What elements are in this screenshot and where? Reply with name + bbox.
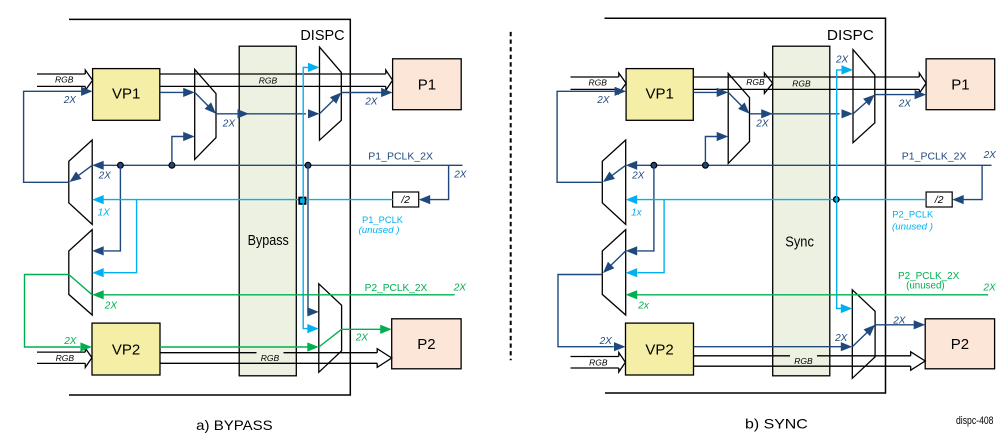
wire VP2 2X output to mux M3 (blue)	[694, 346, 844, 348]
block P2	[925, 319, 994, 369]
wire P_PCLK branch to mux MB (1X)	[104, 200, 137, 273]
svg-text:b) SYNC: b) SYNC	[745, 416, 808, 432]
junction on P1_PCLK_2X at MB branch	[118, 162, 124, 168]
svg-text:RGB: RGB	[55, 75, 74, 85]
block VP1	[93, 69, 160, 121]
wire branch to mux MB 2X input	[104, 165, 120, 251]
wire MA output to VP1 2X clock input	[24, 91, 81, 182]
svg-text:2X: 2X	[599, 336, 613, 347]
svg-text:VP2: VP2	[112, 342, 140, 359]
svg-text:2x: 2x	[637, 300, 650, 311]
svg-text:2X: 2X	[834, 333, 848, 344]
wire branch to mux M1 lower input	[172, 137, 185, 166]
svg-text:P1: P1	[951, 77, 969, 94]
mux M2 (P1 clock)	[320, 47, 342, 140]
mux M1 (VP1 output)	[195, 69, 216, 159]
svg-text:2X: 2X	[835, 55, 849, 66]
svg-text:VP1: VP1	[646, 86, 674, 103]
wire M2 output to P1 pixel clock	[341, 92, 383, 94]
wire M1 output 2X through box to mux M2	[216, 113, 306, 115]
wire VP1 2X output to mux M1	[160, 91, 185, 93]
svg-text:RGB: RGB	[746, 77, 765, 87]
DISPC boundary box (a)	[69, 19, 350, 395]
DISPC boundary box (b)	[605, 18, 886, 393]
mux MB selected path (green)	[69, 275, 92, 295]
wire M1 output 2X through box to mux M2	[750, 113, 840, 115]
svg-text:2X: 2X	[222, 118, 236, 129]
svg-text:RGB: RGB	[588, 78, 607, 88]
block P1	[926, 59, 995, 110]
junction dot on P2_PCLK	[834, 197, 839, 202]
Sync block	[773, 46, 830, 376]
divider /2	[926, 192, 952, 207]
label RGB (inside Bypass box, bottom)	[257, 351, 284, 361]
svg-text:(unused ): (unused )	[892, 221, 933, 232]
svg-text:(unused): (unused)	[906, 281, 945, 292]
mux M2 selected-path arrow	[320, 99, 335, 114]
svg-text:dispc-408: dispc-408	[956, 415, 994, 427]
svg-text:/2: /2	[934, 194, 944, 206]
block VP2	[92, 323, 160, 375]
svg-text:2X: 2X	[596, 95, 610, 106]
wire VP1 2X output to mux M1	[693, 91, 718, 93]
wire RGB bus into VP2	[571, 356, 619, 358]
svg-text:P2: P2	[417, 336, 435, 353]
wire MB output to VP2 2X clock input (green)	[25, 275, 81, 348]
dashed separator line	[510, 32, 512, 360]
svg-text:2X: 2X	[98, 170, 112, 181]
svg-text:P2: P2	[951, 336, 969, 353]
svg-text:RGB: RGB	[259, 76, 278, 86]
svg-text:P1_PCLK_2X: P1_PCLK_2X	[902, 152, 967, 163]
mux M1 selected-path arrow	[195, 92, 210, 107]
Bypass block	[239, 46, 296, 376]
wire RGB bus VP2 to P2	[160, 352, 377, 354]
svg-text:(unused ): (unused )	[359, 225, 400, 236]
mux M2 (P1 clock)	[853, 50, 875, 143]
block P2	[392, 319, 461, 369]
svg-text:VP2: VP2	[645, 342, 673, 359]
wire branch to mux MB 2X input	[638, 165, 654, 251]
wire VP2 2X output to mux M3 (green)	[160, 346, 310, 348]
svg-text:RGB: RGB	[261, 353, 280, 363]
wire P2_PCLK_2X main line	[102, 294, 455, 296]
mux MB (VP2 clock select)	[602, 230, 625, 315]
wire RGB bus VP2 to P2	[694, 355, 911, 357]
mux MA (VP1 clock select)	[602, 140, 625, 224]
block VP2	[626, 323, 694, 375]
svg-text:2X: 2X	[892, 316, 906, 327]
svg-text:2X: 2X	[104, 300, 118, 311]
wire branch down to mux M3 2X input	[308, 165, 309, 312]
wire P1_PCLK_2X main line	[635, 164, 991, 166]
junction square on P1_PCLK	[299, 198, 305, 204]
wire RGB bus VP1 to P1	[693, 76, 919, 78]
wire M2 output to P1 pixel clock	[875, 94, 917, 96]
wire P_PCLK branch to mux MB (1X)	[638, 200, 665, 273]
svg-text:1X: 1X	[98, 208, 111, 219]
wire P_PCLK up to mux M2 top input	[837, 70, 842, 200]
svg-text:2X: 2X	[364, 97, 378, 108]
mux MA selected-path arrow	[77, 165, 92, 176]
svg-text:P2_PCLK: P2_PCLK	[892, 209, 934, 220]
wire RGB bus into VP1	[37, 73, 85, 75]
svg-text:RGB: RGB	[792, 79, 811, 89]
mux MB (VP2 clock select)	[69, 230, 92, 315]
block P1	[393, 59, 462, 110]
mux M1 (VP1 output)	[728, 73, 749, 163]
bus arrow into Sync box with label RGB	[764, 73, 772, 93]
svg-text:2X: 2X	[63, 95, 77, 106]
wire M3 output to P2 pixel clock (blue)	[875, 324, 916, 326]
svg-text:/2: /2	[400, 194, 410, 206]
junction on P1_PCLK_2X at MB branch	[651, 162, 657, 168]
divider /2	[393, 192, 419, 207]
svg-text:RGB: RGB	[794, 356, 813, 366]
svg-text:2X: 2X	[982, 282, 996, 293]
mux MA (VP1 clock select)	[69, 140, 92, 224]
svg-text:DISPC: DISPC	[827, 27, 874, 44]
junction on P1_PCLK_2X at M1 branch	[169, 162, 175, 168]
wire branch to /2 divider	[964, 165, 983, 199]
svg-text:DISPC: DISPC	[300, 27, 344, 44]
svg-text:RGB: RGB	[589, 357, 608, 367]
wire branch to /2 divider	[430, 165, 449, 199]
svg-text:2X: 2X	[453, 170, 467, 181]
mux M3 (P2 clock)	[852, 290, 875, 379]
svg-text:2X: 2X	[898, 99, 912, 110]
svg-text:P1: P1	[418, 77, 436, 94]
svg-text:2X: 2X	[755, 118, 769, 129]
svg-text:Bypass: Bypass	[248, 232, 289, 249]
wire P2_PCLK_2X main line	[635, 294, 988, 296]
mux M3 selected path (blue)	[852, 331, 868, 346]
wire branch to mux M1 lower input	[705, 137, 718, 166]
svg-text:P2_PCLK_2X: P2_PCLK_2X	[365, 283, 428, 294]
mux M1 selected-path arrow	[728, 92, 743, 107]
wire RGB bus into VP1	[571, 76, 619, 78]
svg-text:a) BYPASS: a) BYPASS	[196, 417, 273, 433]
label RGB (inside Sync box, bottom)	[790, 354, 817, 364]
wire P1_PCLK_2X main line	[102, 164, 463, 166]
mux M3 selected path (green)	[319, 329, 342, 347]
svg-text:Sync: Sync	[785, 234, 814, 251]
svg-text:2X: 2X	[63, 336, 77, 347]
wire P_PCLK from /2 to mux MA (1X)	[635, 199, 926, 201]
wire P_PCLK from /2 to mux MA (1X)	[102, 199, 393, 201]
svg-text:VP1: VP1	[112, 86, 140, 103]
wire M3 output to P2 pixel clock (green)	[342, 328, 383, 330]
wire RGB bus VP1 to P1	[160, 73, 386, 75]
svg-text:2X: 2X	[983, 150, 996, 161]
svg-text:1x: 1x	[631, 208, 643, 219]
svg-text:2X: 2X	[453, 282, 467, 293]
mux M2 selected-path arrow	[853, 101, 868, 114]
block VP1	[626, 69, 693, 121]
wire P_PCLK down to mux M3 input	[837, 200, 843, 309]
svg-text:P1_PCLK_2X: P1_PCLK_2X	[368, 152, 433, 163]
wire MA output to VP1 2X clock input	[557, 91, 614, 182]
svg-text:RGB: RGB	[56, 353, 75, 363]
mux M3 (P2 clock)	[319, 284, 342, 373]
junction on P1_PCLK_2X at M1 branch	[703, 162, 709, 168]
mux MA selected-path arrow	[611, 165, 626, 176]
wire P_PCLK up to mux M2 top input	[303, 67, 308, 199]
wire MB output to VP2 2X clock input (blue)	[558, 275, 614, 347]
junction on P1_PCLK_2X at M3 branch	[305, 162, 311, 168]
wire P_PCLK down to mux M3 input	[303, 200, 309, 329]
wire RGB bus into VP2	[37, 351, 85, 353]
svg-text:2X: 2X	[355, 333, 369, 344]
svg-text:2X: 2X	[631, 170, 645, 181]
mux MB selected path (blue)	[610, 251, 626, 267]
